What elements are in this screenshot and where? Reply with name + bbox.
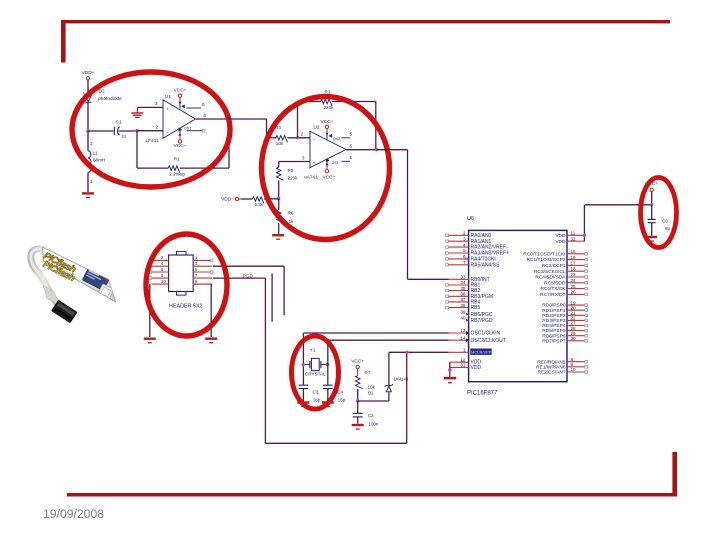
- svg-text:R3: R3: [325, 90, 331, 95]
- wire C3 to ground: [302, 389, 304, 402]
- ground (C4): [322, 401, 334, 407]
- U6 pin 20 RD1/PSP1: [542, 305, 587, 313]
- resistor R3 220k: [321, 99, 332, 106]
- svg-text:100n: 100n: [369, 422, 379, 427]
- U6 pin 3 RA1/AN1: [446, 236, 492, 244]
- svg-text:2: 2: [156, 125, 159, 130]
- svg-text:MCLR/VPP: MCLR/VPP: [471, 350, 492, 355]
- svg-text:U2: U2: [314, 124, 320, 129]
- svg-text:C1: C1: [116, 119, 122, 125]
- wire PGC vertical down: [283, 266, 285, 315]
- U6 pin 4 RA2/AN2/VREF-: [446, 242, 508, 250]
- resistor R7 10k: [355, 376, 362, 389]
- svg-text:5: 5: [202, 102, 205, 108]
- svg-text:3: 3: [463, 236, 466, 241]
- capacitor C1: [114, 127, 119, 135]
- wire node F to C6: [651, 205, 653, 219]
- op-amp U1 LF411 triangle: [163, 100, 196, 138]
- svg-text:26: 26: [571, 290, 577, 295]
- svg-text:34: 34: [460, 280, 466, 285]
- ground (header left): [144, 338, 156, 344]
- wire U2 pin 3: [279, 161, 310, 163]
- U6 pin 38 RB5: [446, 303, 481, 311]
- svg-text:32: 32: [571, 236, 577, 241]
- header J1 left pin 8: [152, 277, 169, 279]
- feedback wire up from node C: [297, 102, 299, 138]
- svg-text:photodiode: photodiode: [98, 96, 122, 102]
- wire R7 to node E: [357, 389, 359, 401]
- ground (C2): [352, 424, 364, 430]
- svg-text:VCC+: VCC+: [321, 119, 334, 125]
- svg-text:RD3/PSP3: RD3/PSP3: [542, 318, 566, 324]
- wire header pin9 to ground: [193, 283, 211, 285]
- balance pin 1 (U2): [326, 158, 330, 162]
- svg-text:220k: 220k: [324, 105, 335, 110]
- resistor R6 1k: [276, 210, 283, 223]
- svg-text:4: 4: [463, 242, 466, 247]
- U6 pin 19 RD0/PSP0: [542, 300, 587, 308]
- resistor R5 220k: [276, 167, 283, 180]
- svg-text:10: 10: [161, 279, 166, 284]
- svg-text:6.8k: 6.8k: [255, 202, 264, 207]
- svg-text:RD4/PSP4: RD4/PSP4: [542, 323, 566, 329]
- node F junction: [650, 203, 653, 206]
- wire to R1: [137, 167, 168, 169]
- U6 pin 10 RE2/CS/AN7: [538, 367, 588, 375]
- U6 pin 21 RD2/PSP2: [542, 311, 587, 319]
- highlight ellipse crystal: [292, 336, 339, 409]
- svg-text:1: 1: [463, 348, 466, 353]
- node U1 output junction: [227, 117, 230, 120]
- crystal Y1: [303, 358, 327, 370]
- svg-text:7: 7: [463, 260, 466, 265]
- U6 pin 32 VDD: [555, 236, 584, 244]
- svg-text:RD2/PSP2: RD2/PSP2: [542, 313, 566, 319]
- U6 pin 31 VDD: [450, 363, 482, 371]
- svg-text:15: 15: [571, 249, 577, 254]
- wire R1 to feedback corner: [180, 167, 229, 169]
- frame bottom-right corner bars: [67, 493, 677, 497]
- header J1 left pin 10: [152, 283, 169, 285]
- svg-text:OSC1/CLKIN: OSC1/CLKIN: [471, 331, 501, 337]
- feedback wire down from node B: [136, 131, 138, 168]
- wire D2 to node A: [87, 103, 89, 131]
- wire U1 output pin 6: [196, 118, 230, 120]
- svg-text:1N4148: 1N4148: [394, 377, 409, 382]
- U6 pin 33 RB0/INT: [449, 275, 490, 283]
- svg-text:2: 2: [463, 231, 466, 236]
- node A junction: [86, 129, 89, 132]
- power VCC- (U2 pin 4): [326, 162, 329, 166]
- diode D1 1N4148: [388, 392, 390, 401]
- wire OSC2 to PIC: [328, 339, 449, 341]
- wire header pin7 to VPP loop: [213, 277, 265, 279]
- wire node A to L1: [87, 131, 89, 151]
- node crystal left junction: [302, 363, 305, 366]
- svg-text:HEADER 5X2: HEADER 5X2: [169, 304, 203, 310]
- svg-text:RD6/PSP6: RD6/PSP6: [542, 333, 566, 339]
- wire node E to D1: [358, 400, 389, 402]
- svg-text:RC0/T1OSO/T1CKI: RC0/T1OSO/T1CKI: [523, 251, 565, 257]
- svg-text:6: 6: [463, 254, 466, 259]
- ground (header right): [205, 338, 217, 344]
- wire VDD rail to C6 node: [585, 204, 652, 206]
- U6 pin 6 RA4/T0CKI: [446, 254, 496, 262]
- svg-text:18: 18: [571, 266, 577, 271]
- resistor R1 2.2meg: [168, 166, 180, 173]
- wire U1 output to R4: [229, 118, 267, 120]
- wire R4 to node C: [288, 137, 311, 139]
- U6 pin 30 RD7/PSP7: [542, 336, 587, 344]
- svg-text:RD1/PSP1: RD1/PSP1: [542, 308, 566, 314]
- wire R2 to node D: [264, 198, 279, 200]
- U6 pin 29 RD6/PSP6: [542, 331, 587, 339]
- wire R5 to node D: [278, 181, 280, 199]
- U6 pin 14 OSC2/CLKOUT: [449, 335, 506, 343]
- svg-text:U6: U6: [467, 216, 474, 222]
- U6 pin 11 VDD: [555, 231, 584, 239]
- U6 pin 13 OSC1/CLKIN: [449, 328, 501, 336]
- U6 pin 18 RC3/SCK/SCL: [534, 266, 587, 274]
- U6 pin 28 RD5/PSP5: [542, 326, 587, 334]
- svg-text:6: 6: [204, 113, 207, 119]
- resistor R4 10k: [276, 136, 287, 143]
- svg-text:+: +: [166, 107, 169, 112]
- svg-text:8p: 8p: [665, 226, 671, 231]
- wire C6 to ground: [651, 223, 653, 236]
- U6 pin 35 RB2: [446, 286, 481, 294]
- svg-text:220k: 220k: [288, 175, 299, 180]
- power VCC- (U1 pin 4): [179, 132, 182, 135]
- node D junction: [277, 197, 280, 200]
- svg-text:23: 23: [571, 272, 577, 277]
- svg-text:VCC+: VCC+: [174, 88, 187, 94]
- U6 pin 24 RC5/SDO: [544, 278, 587, 286]
- svg-text:RD0/PSP0: RD0/PSP0: [542, 303, 566, 309]
- svg-text:L1: L1: [93, 151, 99, 156]
- svg-text:RE2/CS/AN7: RE2/CS/AN7: [538, 370, 566, 376]
- svg-text:VCC−: VCC−: [174, 143, 187, 149]
- capacitor C2 100n: [353, 413, 363, 417]
- svg-text:R5: R5: [288, 168, 294, 173]
- wire OSC1 to PIC: [303, 332, 448, 334]
- svg-text:RD5/PSP5: RD5/PSP5: [542, 328, 566, 334]
- svg-text:2.2meg: 2.2meg: [169, 172, 185, 177]
- svg-text:U1: U1: [165, 94, 171, 99]
- wire pin3 down to R5: [278, 162, 280, 168]
- U6 pin 17 RC2/CCP1: [542, 261, 588, 269]
- U6 pin 16 RC1/T1OSI/CCP2: [527, 255, 588, 263]
- svg-text:RB7/PGD: RB7/PGD: [471, 318, 493, 324]
- svg-text:VDD: VDD: [555, 239, 566, 245]
- frame top-left corner bars: [61, 20, 670, 23]
- svg-text:OS1: OS1: [184, 126, 191, 130]
- wire VDD rail from PIC: [583, 205, 585, 241]
- wire node D to R6: [278, 199, 280, 210]
- highlight ellipse header: [146, 234, 227, 336]
- svg-text:38: 38: [460, 303, 466, 308]
- svg-text:D2: D2: [99, 89, 105, 95]
- svg-text:RC6/TX/CK: RC6/TX/CK: [540, 286, 566, 292]
- svg-text:10k: 10k: [276, 141, 284, 146]
- balance pin 1 (U1): [187, 130, 203, 132]
- balance pin 5 (U2): [329, 134, 333, 138]
- svg-text:6: 6: [350, 143, 353, 149]
- svg-text:15p: 15p: [313, 397, 321, 402]
- U6 pin 39 RB6/PGC: [460, 309, 492, 317]
- svg-text:5: 5: [350, 131, 353, 137]
- svg-text:35: 35: [460, 286, 466, 291]
- balance pin 5 (U1): [187, 107, 202, 109]
- node B junction: [135, 129, 138, 132]
- node E junction: [356, 399, 359, 402]
- svg-text:2: 2: [301, 132, 304, 137]
- svg-text:RC3/SCK/SCL: RC3/SCK/SCL: [534, 269, 566, 275]
- header J1 right pin 5: [193, 271, 212, 273]
- svg-text:37: 37: [460, 297, 466, 302]
- svg-text:13: 13: [460, 328, 466, 333]
- svg-text:RE1/WR/AN6: RE1/WR/AN6: [536, 364, 566, 370]
- U6 pin 5 RA3/AN3/VREF+: [446, 248, 509, 256]
- svg-text:11: 11: [571, 231, 576, 236]
- svg-text:33: 33: [460, 275, 466, 280]
- node U2 output junction: [375, 148, 378, 151]
- header J1 right pin 1: [193, 259, 212, 261]
- U6 pin 34 RB1: [446, 280, 481, 288]
- svg-text:RE0/RD/AN5: RE0/RD/AN5: [537, 359, 566, 365]
- wire VCC+ to node F: [651, 192, 653, 205]
- svg-text:OSC2/CLKOUT: OSC2/CLKOUT: [471, 338, 506, 344]
- node crystal right junction: [326, 363, 329, 366]
- pin arrow OSC2: [466, 338, 469, 342]
- svg-text:R1: R1: [174, 156, 180, 161]
- svg-text:31: 31: [460, 363, 466, 368]
- wire OSC1 vertical: [302, 333, 304, 385]
- svg-text:17: 17: [571, 261, 577, 266]
- node VDD stub junction: [583, 234, 586, 237]
- svg-text:CRYSTAL: CRYSTAL: [305, 371, 326, 376]
- pin arrow OSC1: [466, 331, 469, 335]
- wire OSC2 vertical: [327, 340, 329, 384]
- capacitor C6 8p: [648, 219, 656, 222]
- feedback wire R3 to output node: [332, 101, 376, 103]
- wire PGD vertical: [271, 273, 273, 321]
- svg-text:−: −: [313, 136, 316, 141]
- header J1 left pin 2: [152, 259, 169, 261]
- wire C4 to ground: [327, 389, 329, 402]
- wire VDD- to R2: [242, 198, 253, 200]
- wire VPP loop down: [264, 278, 266, 443]
- node C junction (U2 pin 2): [296, 136, 299, 139]
- svg-text:OS2: OS2: [333, 137, 340, 141]
- capacitor C4 15p: [323, 384, 333, 386]
- svg-text:RC7/RX/DT: RC7/RX/DT: [540, 292, 565, 298]
- svg-text:PIC16F877: PIC16F877: [467, 391, 498, 397]
- wire U2 output to RB0/INT: [377, 149, 408, 151]
- wire C2 to ground: [357, 417, 359, 424]
- wire VDD+ to D2: [87, 80, 89, 95]
- highlight ellipse C6: [641, 178, 677, 248]
- svg-text:RC4/SDI/SDA: RC4/SDI/SDA: [535, 275, 566, 281]
- feedback wire up to output node: [228, 119, 230, 168]
- svg-text:15p: 15p: [338, 397, 346, 402]
- header J1 right pin 7: [193, 277, 212, 279]
- U6 pin 12 VDD: [450, 357, 482, 365]
- svg-text:16: 16: [571, 255, 577, 260]
- wire VPP loop bottom: [265, 442, 406, 444]
- connector J1 HEADER 5X2 body: [169, 251, 194, 295]
- U6 pin 8 RE0/RD/AN5: [537, 357, 587, 365]
- wire header pin3 to PGC vertical: [213, 265, 284, 267]
- svg-text:5: 5: [463, 248, 466, 253]
- header J1 left pin 6: [152, 271, 169, 273]
- svg-text:+: +: [313, 160, 316, 165]
- wire node A to C1: [88, 130, 114, 132]
- svg-text:LF411: LF411: [146, 138, 160, 144]
- header J1 pin 1 stub: [210, 259, 213, 262]
- wire R6 to ground: [278, 223, 280, 234]
- photodiode D2: [83, 93, 91, 103]
- photo USB PIC programmer device: [31, 247, 116, 323]
- inductor L1 68mH: [88, 151, 91, 173]
- svg-text:1: 1: [350, 155, 353, 161]
- node VSS junction: [448, 368, 451, 371]
- header J1 pin 5 stub: [210, 271, 213, 274]
- ground (U6 VSS): [444, 377, 456, 384]
- U6 pin 26 RC7/RX/DT: [540, 290, 587, 298]
- U6 pin 9 RE1/WR/AN6: [536, 362, 587, 370]
- svg-text:C3: C3: [313, 389, 319, 394]
- highlight ellipse stage 1: [72, 72, 230, 187]
- ground (R6): [272, 234, 284, 240]
- svg-text:R7: R7: [365, 371, 371, 376]
- svg-text:39: 39: [460, 309, 466, 314]
- svg-text:25: 25: [571, 284, 577, 289]
- ground (U1 pin 3): [137, 107, 139, 112]
- U6 pin 27 RD4/PSP4: [542, 321, 587, 329]
- svg-text:C2: C2: [368, 413, 374, 418]
- svg-text:VDD−: VDD−: [221, 197, 234, 203]
- svg-text:RC5/SDO: RC5/SDO: [544, 280, 566, 286]
- wire node E to C2: [357, 401, 359, 413]
- svg-text:19/09/2008: 19/09/2008: [43, 507, 104, 521]
- svg-text:10: 10: [571, 367, 577, 372]
- svg-text:OS1: OS1: [332, 161, 339, 165]
- resistor R2 6.8k: [253, 197, 264, 204]
- svg-text:68mH: 68mH: [93, 158, 105, 163]
- svg-text:10k: 10k: [368, 385, 376, 390]
- svg-text:R6: R6: [288, 210, 294, 215]
- op-amp U2 uA741 triangle: [310, 131, 346, 167]
- ground (photodiode branch): [82, 192, 94, 198]
- U6 pin 15 RC0/T1OSO/T1CKI: [523, 249, 587, 257]
- wire header pin10 to ground: [149, 284, 151, 337]
- wire MCLR horizontal: [389, 351, 449, 353]
- U6 pin 1 MCLR/VPP: [449, 348, 492, 355]
- U6 pin 37 RB4: [446, 297, 481, 305]
- U6 pin 2 RA0/AN0: [446, 231, 492, 239]
- U6 pin 7 RA5/AN4/SS: [446, 260, 500, 268]
- svg-text:36: 36: [460, 292, 466, 297]
- wire node B to U1 pin 2: [137, 130, 163, 132]
- U6 pin 25 RC6/TX/CK: [540, 284, 587, 292]
- ground (C3): [297, 401, 309, 407]
- svg-text:30: 30: [571, 336, 577, 341]
- svg-text:RC1/T1OSI/CCP2: RC1/T1OSI/CCP2: [527, 257, 566, 263]
- svg-text:1u: 1u: [121, 134, 126, 139]
- svg-text:−: −: [166, 130, 169, 135]
- U6 pin 40 RB7/PGD: [460, 315, 492, 323]
- wire VSS pins to ground: [449, 362, 451, 376]
- U6 pin 23 RC4/SDI/SDA: [535, 272, 587, 280]
- wire C1 to node B: [119, 130, 137, 132]
- svg-text:Y1: Y1: [310, 348, 316, 354]
- wire VPP loop up to MCLR node: [406, 352, 408, 443]
- svg-text:RA5/AN4/SS: RA5/AN4/SS: [471, 262, 501, 268]
- wire D1 to MCLR line: [388, 352, 390, 385]
- svg-text:RB5: RB5: [471, 305, 481, 311]
- highlight ellipse stage 2: [262, 97, 390, 240]
- capacitor C3 15p: [299, 384, 309, 386]
- wire L1 to ground: [87, 172, 89, 192]
- ground (C6): [646, 236, 657, 242]
- svg-text:14: 14: [460, 335, 466, 340]
- svg-text:VCC−: VCC−: [323, 174, 336, 180]
- wire U2 output pin 6: [346, 149, 377, 151]
- svg-text:RD7/PSP7: RD7/PSP7: [542, 338, 566, 344]
- svg-text:D1: D1: [368, 391, 374, 396]
- header J1 left pin 4: [152, 265, 169, 267]
- svg-text:3: 3: [155, 101, 158, 106]
- node MCLR junction: [405, 351, 408, 354]
- wire U1 pin3 to ground: [138, 106, 164, 108]
- svg-text:24: 24: [571, 278, 577, 283]
- svg-text:VCC+: VCC+: [351, 359, 364, 365]
- U6 pin 22 RD3/PSP3: [542, 316, 587, 324]
- svg-text:RC2/CCP1: RC2/CCP1: [542, 263, 566, 269]
- svg-text:1k: 1k: [289, 219, 295, 224]
- svg-text:uA741: uA741: [304, 174, 318, 180]
- microcontroller U6 PIC16F877 body: [469, 230, 567, 381]
- header J1 right pin 3: [193, 265, 212, 267]
- svg-text:VDD: VDD: [471, 365, 482, 371]
- svg-text:VDD: VDD: [555, 233, 566, 239]
- svg-text:C6: C6: [662, 218, 668, 223]
- U6 pin 36 RB3/PGM: [446, 292, 493, 300]
- svg-text:40: 40: [460, 315, 466, 320]
- svg-text:VDD+: VDD+: [82, 70, 95, 76]
- header J1 right pin 9: [193, 283, 212, 285]
